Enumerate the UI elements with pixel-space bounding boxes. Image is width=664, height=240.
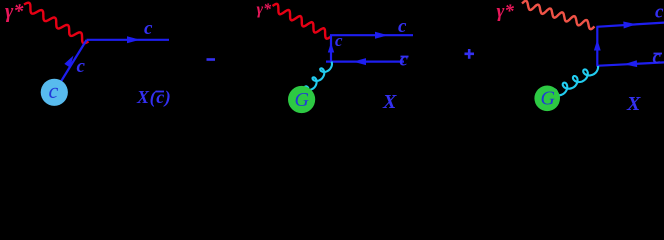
outgoing c quark line (top) [597,23,664,27]
quark line c from intrinsic charm blob [55,40,87,92]
svg-text:c: c [653,47,662,68]
plus sign [465,49,475,59]
gluon coil from G blob [552,66,598,95]
svg-text:γ*: γ* [5,1,24,23]
arrow on top c line [623,22,636,29]
svg-text:c: c [144,18,153,39]
arrow on outgoing c line [127,36,140,43]
svg-text:G: G [541,88,556,110]
quark line c outgoing (horizontal) [87,39,170,41]
outgoing cbar quark line (bottom) [326,60,404,62]
intrinsic charm blob c [41,79,68,106]
gluon coil from G blob [305,62,332,91]
svg-text:c: c [335,31,343,50]
minus sign [207,58,216,61]
arrow on top c line [375,32,388,39]
svg-text:c: c [49,78,59,103]
internal quark propagator (vertical) [330,35,332,62]
arrow on internal propagator [594,40,601,51]
svg-text:γ*: γ* [257,1,273,18]
svg-text:c: c [77,56,86,77]
photon wavy line [522,1,595,29]
svg-text:X: X [626,93,641,115]
overbar of cbar label [401,56,409,58]
svg-text:X(c): X(c) [136,87,171,108]
gluon blob G [288,86,315,113]
overbar of cbar label [654,53,663,55]
svg-text:X: X [382,91,397,113]
svg-text:c: c [400,50,409,71]
arrow on bottom cbar line [353,58,366,65]
internal quark propagator (vertical) [596,27,598,66]
photon wavy line [273,4,332,39]
outgoing c quark line (top) [330,34,413,36]
arrow on incoming c line [64,56,73,68]
outgoing cbar quark line (bottom) [597,62,664,65]
svg-text:G: G [295,89,310,111]
svg-text:c: c [398,16,407,37]
overbar of cbar in X(cbar) [156,91,165,93]
arrow on bottom cbar line [624,60,637,67]
photon gamma* wavy line [24,3,89,44]
gluon blob G [534,86,560,112]
arrow on internal propagator [328,43,334,53]
svg-text:γ*: γ* [497,1,515,22]
svg-text:c: c [655,2,664,23]
